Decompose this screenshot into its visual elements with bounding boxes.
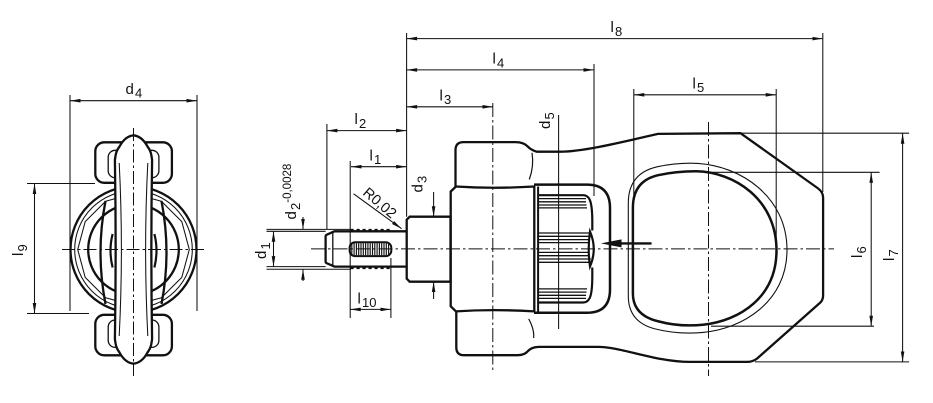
nut pivot tip lens bbox=[589, 232, 594, 267]
main body cylinder bbox=[451, 187, 535, 312]
nut bottom tab bbox=[95, 315, 172, 356]
dimension d2 lower arrow bbox=[302, 269, 304, 281]
svg-text:d4: d4 bbox=[126, 81, 143, 101]
thread crest dashes bottom bbox=[351, 267, 392, 269]
yoke arm around nut bbox=[534, 185, 610, 313]
svg-text:d1: d1 bbox=[253, 242, 273, 259]
extension line collar face (l1 l2 l3 l4 l8) bbox=[406, 33, 408, 217]
dimension l1 line bbox=[351, 166, 407, 168]
dimension l2 line bbox=[327, 130, 407, 132]
ring hole outline bbox=[633, 171, 777, 325]
dimension d4 extension line left bbox=[69, 95, 71, 311]
ball silhouette arc right bbox=[162, 201, 167, 304]
nut knurl lines bbox=[539, 199, 591, 299]
nut bottom inner contour bbox=[108, 320, 159, 347]
extension d1 bottom bbox=[267, 266, 326, 268]
nut left face bbox=[537, 187, 539, 312]
svg-text:d5: d5 bbox=[537, 112, 557, 129]
svg-text:l5: l5 bbox=[693, 75, 705, 95]
extension line l8 right bbox=[822, 33, 824, 192]
svg-text:l8: l8 bbox=[611, 19, 623, 39]
load direction arrow bbox=[618, 242, 652, 244]
horizontal centerline bbox=[311, 248, 834, 250]
ring body outer circle bbox=[71, 187, 197, 313]
extension d2 top bbox=[267, 228, 352, 230]
pivot crescent right bbox=[154, 234, 156, 268]
handle inner contour left bbox=[119, 163, 121, 336]
ball silhouette arc left bbox=[101, 201, 106, 304]
threaded stud bbox=[326, 231, 407, 266]
dimension d1 line bbox=[273, 231, 275, 266]
extension line l2 left bbox=[326, 124, 328, 229]
cap fillet arc bottom bbox=[529, 319, 534, 338]
cap fillet arc top bbox=[529, 153, 532, 180]
extension d2 bottom bbox=[267, 268, 352, 270]
svg-text:R0,02: R0,02 bbox=[359, 185, 399, 222]
body axis centerline bbox=[492, 103, 494, 373]
ring body polygon contour bbox=[78, 194, 190, 306]
svg-text:l6: l6 bbox=[849, 246, 869, 258]
dimension d4 extension line right bbox=[196, 95, 198, 311]
dimension d4 line bbox=[70, 100, 197, 102]
ring body circle 2 bbox=[75, 191, 193, 309]
thread crest dashes top bbox=[351, 229, 392, 231]
svg-text:d2-0,0028: d2-0,0028 bbox=[282, 164, 303, 220]
extension line l5 right bbox=[775, 89, 777, 252]
horizontal centerline bbox=[62, 249, 205, 251]
nut outline bbox=[538, 195, 592, 302]
dimension l7 line bbox=[902, 133, 904, 362]
pivot crescent left bbox=[111, 234, 113, 268]
extension line l1/l10 left bbox=[349, 161, 351, 318]
collar bbox=[407, 217, 451, 282]
dimension d3 upper arrow bbox=[433, 192, 435, 217]
vertical centerline bbox=[133, 128, 135, 376]
dimension d5 line bbox=[558, 115, 560, 329]
extension line l4 right bbox=[593, 64, 595, 196]
outer silhouette of swivel body and ring bbox=[456, 133, 824, 362]
dimension l3 line bbox=[407, 106, 493, 108]
extension l6 top bbox=[710, 171, 880, 173]
dimension l8 line bbox=[407, 38, 823, 40]
thread band knurl hatch bbox=[352, 243, 389, 255]
svg-text:l3: l3 bbox=[440, 87, 452, 107]
dimension l5 line bbox=[634, 94, 776, 96]
extension l6 bottom bbox=[711, 325, 874, 327]
extension line l10 right bbox=[390, 258, 392, 318]
thread band bbox=[350, 242, 392, 256]
svg-text:l1: l1 bbox=[370, 147, 382, 167]
ring hole axis centerline bbox=[708, 122, 710, 376]
leader R0,02 bbox=[354, 194, 402, 229]
ring body inner thick circle bbox=[88, 204, 179, 295]
extension d1 top bbox=[267, 230, 326, 232]
svg-text:d3: d3 bbox=[410, 176, 430, 193]
handle inner contour right bbox=[146, 163, 148, 336]
dimension l4 line bbox=[407, 69, 594, 71]
nut top tab bbox=[95, 142, 172, 183]
extension line l5 left bbox=[633, 89, 635, 200]
dimension l6 line bbox=[870, 172, 872, 326]
svg-text:l7: l7 bbox=[881, 249, 901, 261]
dimension l9 extension top bbox=[27, 183, 95, 185]
ring hole thin offset contour bbox=[628, 163, 787, 333]
svg-text:l10: l10 bbox=[358, 290, 377, 310]
dimension d3 lower arrow bbox=[433, 282, 435, 299]
svg-text:l4: l4 bbox=[493, 51, 505, 71]
dimension l9 line bbox=[34, 184, 36, 314]
svg-text:l2: l2 bbox=[355, 111, 367, 131]
nut top inner contour bbox=[108, 150, 159, 177]
dimension l9 extension bottom bbox=[27, 313, 89, 315]
stud end chamfer line bbox=[332, 232, 334, 266]
ring edge-on profile (handle) bbox=[115, 135, 152, 363]
extension l7 bottom bbox=[755, 361, 909, 363]
extension l7 top bbox=[741, 132, 909, 134]
svg-text:l9: l9 bbox=[10, 244, 30, 256]
dimension l10 line bbox=[350, 308, 391, 310]
dimension d2 upper arrow bbox=[302, 217, 304, 229]
